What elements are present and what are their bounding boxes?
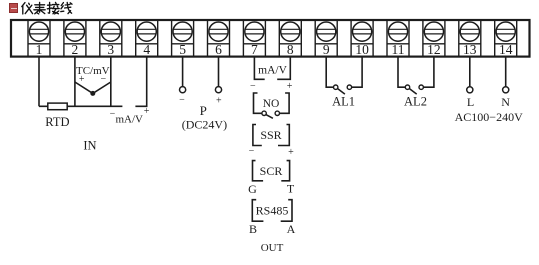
- svg-text:mA/V: mA/V: [258, 64, 287, 76]
- open terminal circle (t13): [467, 87, 473, 93]
- wire terminal1 down: [38, 57, 40, 107]
- relay NO contacts and lever: [262, 111, 280, 118]
- svg-text:mA/V: mA/V: [115, 114, 143, 126]
- svg-text:N: N: [501, 95, 510, 109]
- terminal 11 (cell, screw, number): [387, 20, 409, 57]
- thermocouple TC junction V: [75, 82, 111, 96]
- terminal 7 (cell, screw, number): [243, 20, 265, 57]
- svg-text:4: 4: [143, 42, 150, 57]
- terminal 12 (cell, screw, number): [423, 20, 445, 57]
- svg-text:12: 12: [427, 42, 441, 57]
- svg-text:(DC24V): (DC24V): [182, 118, 227, 132]
- svg-text:1: 1: [36, 42, 43, 57]
- svg-text:AC100−240V: AC100−240V: [455, 110, 523, 124]
- title icon (red bullet): [9, 3, 19, 13]
- terminal 13 (cell, screw, number): [459, 20, 481, 57]
- svg-text:−: −: [249, 146, 255, 157]
- wire terminal8 down: [277, 57, 290, 80]
- terminal 6 (cell, screw, number): [208, 20, 230, 57]
- svg-text:+: +: [216, 95, 222, 106]
- terminal 14 (cell, screw, number): [495, 20, 517, 57]
- svg-text:OUT: OUT: [261, 242, 284, 254]
- svg-text:10: 10: [355, 42, 369, 57]
- svg-text:8: 8: [287, 42, 294, 57]
- svg-text:T: T: [287, 182, 295, 196]
- wire terminal4 down and stub: [135, 57, 146, 107]
- svg-text:SSR: SSR: [260, 128, 281, 142]
- AL2 contact circles and lever: [405, 85, 423, 94]
- wire terminal6 down: [218, 57, 220, 87]
- svg-text:NO: NO: [263, 98, 280, 110]
- wire terminal14 down: [505, 57, 507, 87]
- svg-text:AL1: AL1: [332, 95, 355, 109]
- relay NO box bracket: [254, 93, 290, 113]
- AL1 contact circles and lever: [334, 85, 352, 94]
- svg-text:14: 14: [499, 42, 513, 57]
- svg-text:2: 2: [72, 42, 79, 57]
- svg-text:+: +: [79, 74, 85, 85]
- wire terminal10 down-left (AL1 right): [352, 57, 363, 88]
- wire terminal7 down: [254, 57, 264, 80]
- terminal 9 (cell, screw, number): [315, 20, 337, 57]
- svg-text:−: −: [179, 95, 185, 106]
- terminal 1 (cell, screw, number): [28, 20, 50, 57]
- svg-text:P: P: [200, 103, 207, 118]
- svg-text:5: 5: [179, 42, 186, 57]
- svg-text:G: G: [248, 182, 257, 196]
- terminal 5 (cell, screw, number): [172, 20, 194, 57]
- wire terminal5 down: [182, 57, 184, 87]
- terminal 3 (cell, screw, number): [100, 20, 122, 57]
- svg-text:AL2: AL2: [404, 95, 427, 109]
- wire terminal3 down: [110, 57, 112, 107]
- open terminal circle (t14): [503, 87, 509, 93]
- open terminal circle (t5): [180, 87, 186, 93]
- terminal strip outer body: [11, 20, 530, 57]
- svg-text:11: 11: [392, 42, 405, 57]
- svg-text:−: −: [100, 74, 106, 85]
- SSR box bracket: [253, 125, 289, 146]
- svg-text:SCR: SCR: [260, 164, 283, 178]
- terminal 4 (cell, screw, number): [136, 20, 158, 57]
- terminal 10 (cell, screw, number): [351, 20, 373, 57]
- svg-text:+: +: [287, 81, 293, 92]
- svg-text:IN: IN: [83, 139, 96, 153]
- open terminal circle (t6): [215, 87, 221, 93]
- svg-text:A: A: [287, 222, 296, 236]
- wire terminal9 down-right (AL1 left): [326, 57, 333, 88]
- svg-text:RS485: RS485: [256, 204, 289, 218]
- wire terminal2 down: [74, 57, 76, 107]
- svg-text:RTD: RTD: [45, 115, 69, 129]
- wire terminal12 down-left (AL2 right): [423, 57, 434, 88]
- svg-text:B: B: [249, 222, 257, 236]
- svg-text:9: 9: [323, 42, 330, 57]
- RS485 box bracket: [252, 200, 292, 222]
- wire terminal13 down: [469, 57, 471, 87]
- terminal 2 (cell, screw, number): [64, 20, 86, 57]
- wire bottom rail with RTD gap: [39, 105, 122, 107]
- svg-text:−: −: [250, 81, 256, 92]
- svg-text:13: 13: [463, 42, 477, 57]
- wire terminal11 down-right (AL2 left): [398, 57, 405, 88]
- resistor RTD: [48, 103, 67, 110]
- title text 仪表接线 (drawn strokes): [22, 2, 72, 14]
- svg-text:7: 7: [251, 42, 258, 57]
- SCR box bracket: [253, 161, 290, 181]
- terminal 8 (cell, screw, number): [279, 20, 301, 57]
- svg-text:6: 6: [215, 42, 222, 57]
- svg-text:L: L: [467, 95, 474, 109]
- svg-text:+: +: [288, 147, 294, 158]
- svg-text:+: +: [144, 106, 150, 117]
- svg-text:3: 3: [107, 42, 114, 57]
